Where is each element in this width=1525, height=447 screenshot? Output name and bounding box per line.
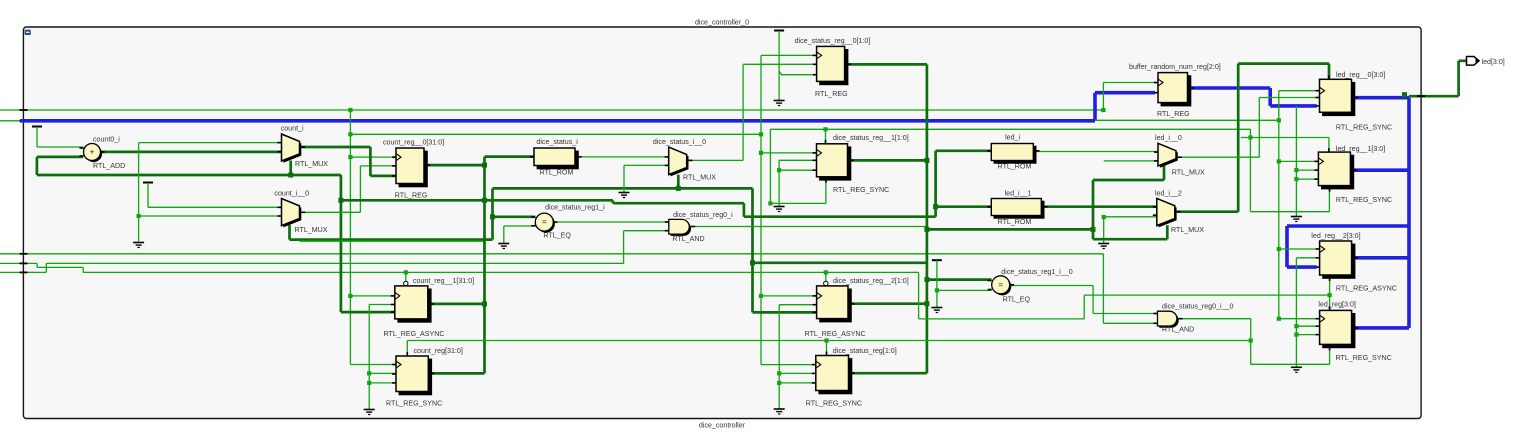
svg-text:RTL_AND: RTL_AND (1162, 326, 1194, 334)
svg-text:count_reg[31:0]: count_reg[31:0] (414, 347, 463, 355)
svg-text:count_reg__0[31:0]: count_reg__0[31:0] (383, 139, 444, 147)
svg-text:RTL_REG: RTL_REG (1157, 110, 1190, 118)
svg-text:RTL_ROM: RTL_ROM (998, 163, 1032, 171)
svg-text:RTL_ROM: RTL_ROM (540, 169, 574, 177)
svg-text:led_reg[3:0]: led_reg[3:0] (1318, 301, 1355, 309)
svg-text:RTL_REG_SYNC: RTL_REG_SYNC (1336, 354, 1392, 362)
svg-text:led_i__1: led_i__1 (1005, 190, 1032, 198)
svg-text:dice_status_reg1_i__0: dice_status_reg1_i__0 (1001, 268, 1072, 276)
svg-text:dice_status_reg0_i: dice_status_reg0_i (673, 211, 733, 219)
svg-text:dice_status_reg__2[1:0]: dice_status_reg__2[1:0] (833, 277, 909, 285)
svg-text:RTL_MUX: RTL_MUX (295, 160, 328, 168)
svg-text:RTL_REG_SYNC: RTL_REG_SYNC (1336, 124, 1392, 132)
svg-text:buffer_random_num_reg[2:0]: buffer_random_num_reg[2:0] (1129, 63, 1221, 71)
svg-text:RTL_MUX: RTL_MUX (683, 174, 716, 182)
svg-text:dice_status_reg1_i: dice_status_reg1_i (545, 204, 605, 212)
svg-text:RTL_REG_ASYNC: RTL_REG_ASYNC (805, 330, 866, 338)
svg-text:dice_controller: dice_controller (699, 422, 746, 430)
svg-text:RTL_REG_ASYNC: RTL_REG_ASYNC (384, 330, 445, 338)
svg-text:+: + (90, 148, 95, 157)
svg-text:led_reg__1[3:0]: led_reg__1[3:0] (1336, 145, 1385, 153)
svg-text:RTL_ADD: RTL_ADD (93, 162, 125, 170)
svg-text:count_reg__1[31:0]: count_reg__1[31:0] (413, 277, 474, 285)
svg-text:led[3:0]: led[3:0] (1482, 58, 1505, 66)
svg-text:RTL_REG: RTL_REG (395, 192, 428, 200)
svg-text:dice_status_reg0_i__0: dice_status_reg0_i__0 (1162, 303, 1233, 311)
svg-text:count_i__0: count_i__0 (274, 190, 309, 198)
svg-text:led_reg__0[3:0]: led_reg__0[3:0] (1336, 71, 1385, 79)
svg-text:dice_status_i: dice_status_i (536, 138, 578, 146)
svg-text:RTL_EQ: RTL_EQ (543, 232, 571, 240)
svg-text:RTL_REG_SYNC: RTL_REG_SYNC (833, 186, 889, 194)
svg-text:RTL_AND: RTL_AND (672, 235, 704, 243)
svg-text:=: = (998, 280, 1003, 289)
svg-text:dice_controller_0: dice_controller_0 (695, 19, 749, 27)
svg-text:count_i: count_i (281, 125, 304, 133)
svg-text:RTL_ROM: RTL_ROM (998, 218, 1032, 226)
svg-text:led_i__2: led_i__2 (1155, 190, 1182, 198)
svg-text:dice_status_reg[1:0]: dice_status_reg[1:0] (833, 347, 897, 355)
svg-text:dice_status_i__0: dice_status_i__0 (653, 138, 706, 146)
svg-text:=: = (542, 218, 547, 227)
svg-text:RTL_MUX: RTL_MUX (1172, 169, 1205, 177)
svg-text:led_i: led_i (1005, 134, 1020, 142)
svg-text:dice_status_reg__1[1:0]: dice_status_reg__1[1:0] (833, 134, 909, 142)
svg-text:RTL_REG_SYNC: RTL_REG_SYNC (386, 400, 442, 408)
svg-text:RTL_MUX: RTL_MUX (295, 226, 328, 234)
svg-text:RTL_MUX: RTL_MUX (1171, 226, 1204, 234)
svg-text:led_reg__2[3:0]: led_reg__2[3:0] (1311, 232, 1360, 240)
svg-text:RTL_REG_SYNC: RTL_REG_SYNC (806, 400, 862, 408)
svg-text:RTL_REG: RTL_REG (815, 90, 848, 98)
svg-text:count0_i: count0_i (93, 136, 120, 144)
svg-text:RTL_REG_ASYNC: RTL_REG_ASYNC (1336, 284, 1397, 292)
svg-text:led_i__0: led_i__0 (1155, 134, 1182, 142)
svg-text:dice_status_reg__0[1:0]: dice_status_reg__0[1:0] (795, 37, 871, 45)
svg-text:RTL_REG_SYNC: RTL_REG_SYNC (1336, 196, 1392, 204)
svg-text:RTL_EQ: RTL_EQ (1003, 296, 1031, 304)
